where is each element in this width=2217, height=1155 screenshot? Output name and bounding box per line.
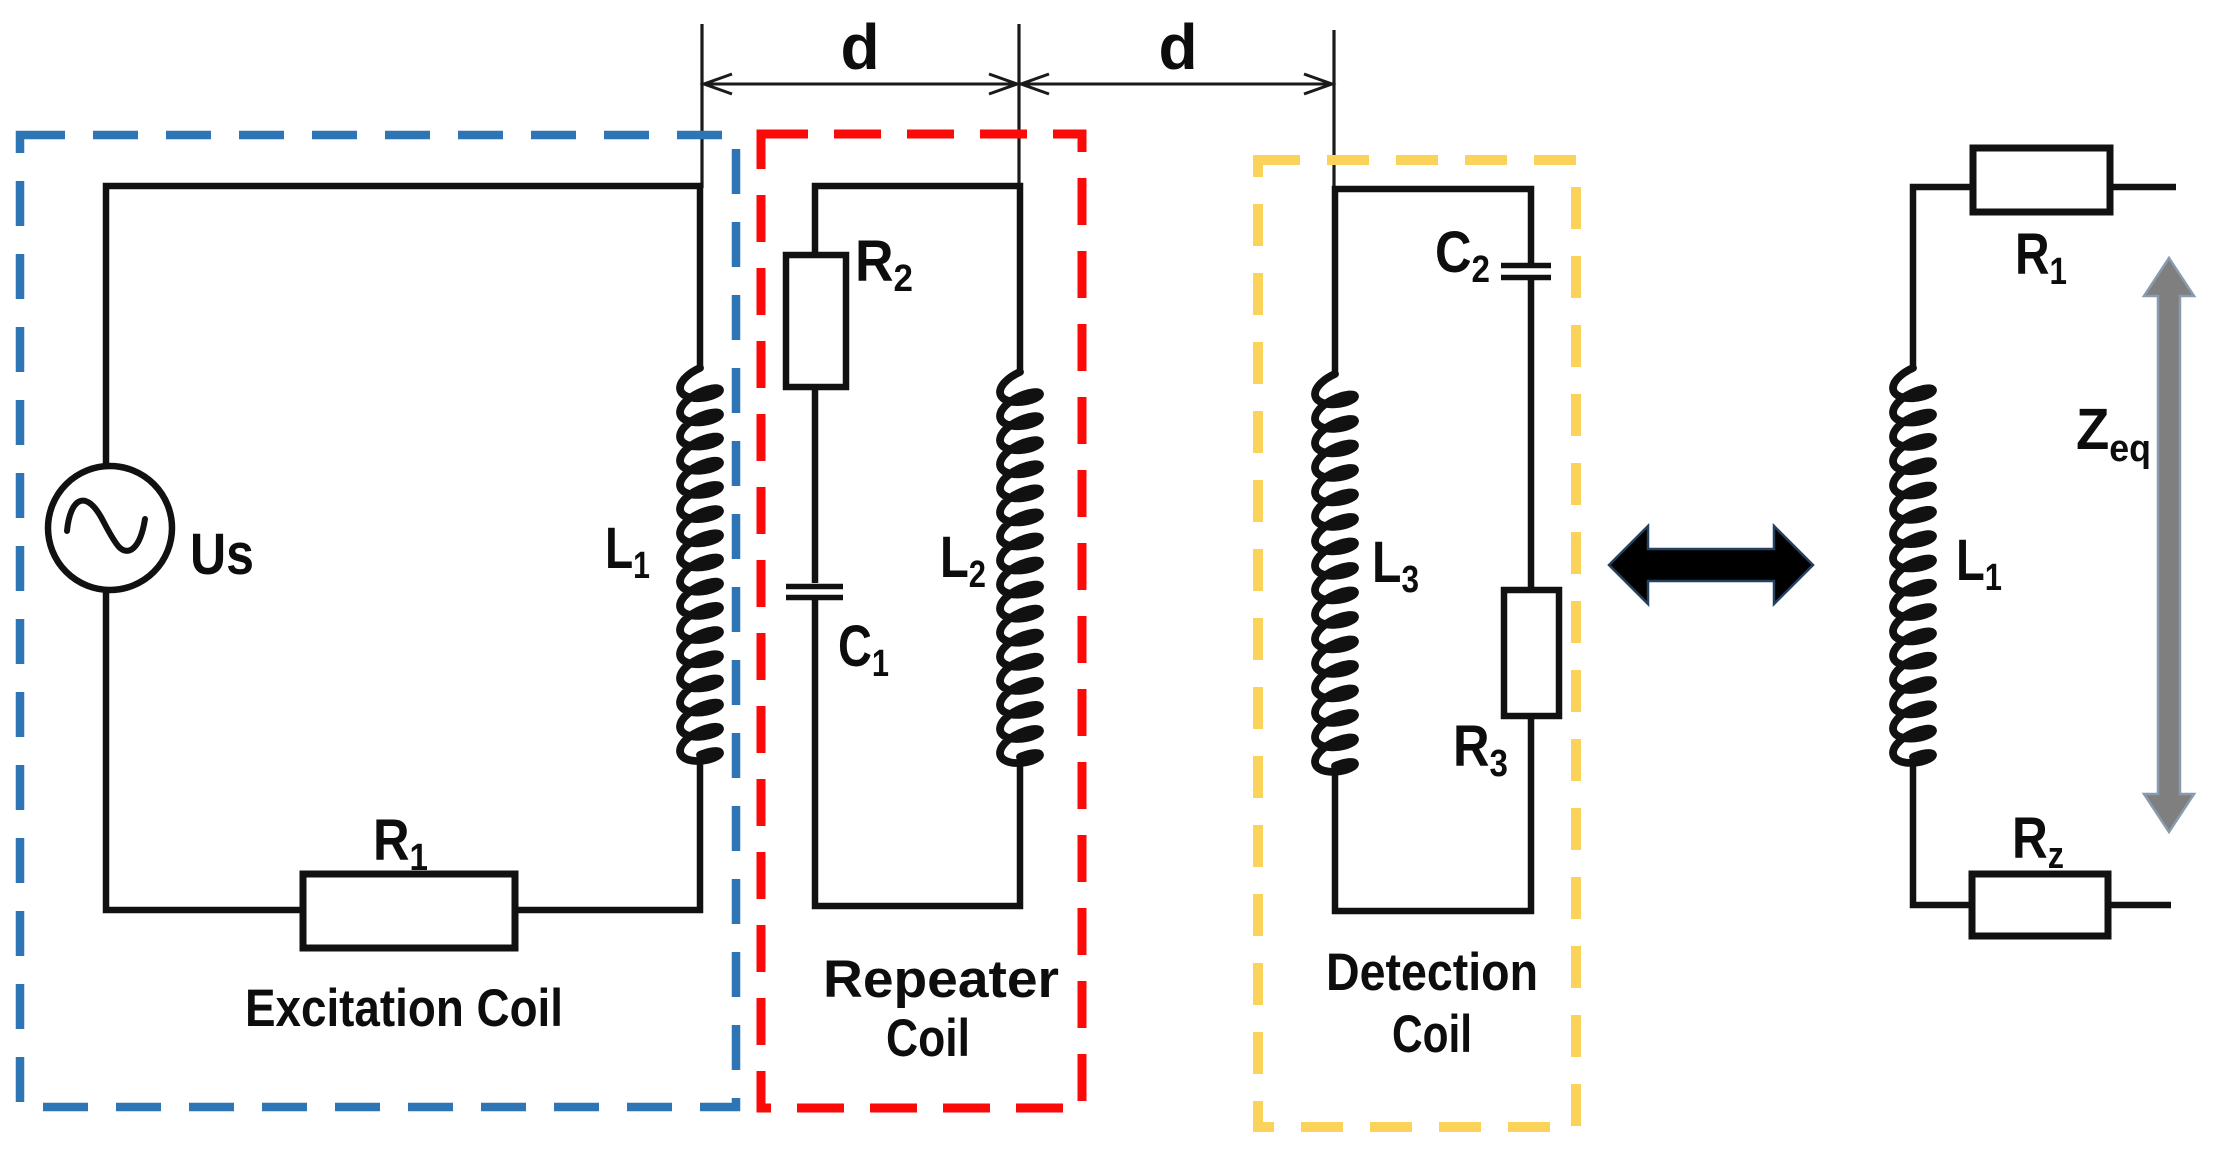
wire: excitation bottom right [515, 755, 700, 910]
capacitor C1 [786, 587, 843, 598]
svg-text:Us: Us [190, 522, 254, 587]
wire: excitation top loop [106, 186, 700, 466]
resistor R3 [1504, 590, 1559, 716]
capacitor C2 [1501, 266, 1551, 278]
wire: detection bottom loop [1335, 716, 1531, 911]
wire: repeater bottom loop [815, 600, 1020, 906]
AC voltage source Us [48, 466, 172, 590]
wire: excitation left lower [106, 588, 303, 910]
resistor R1 (excitation) [303, 874, 515, 948]
wire: equivalent top [1913, 187, 1973, 368]
svg-text:Coil: Coil [886, 1009, 970, 1068]
wire: detection top loop [1335, 189, 1531, 374]
dimension arrow line d (right span) [1019, 74, 1334, 94]
resistor Rz [1972, 874, 2108, 936]
equivalence double-headed arrow [1609, 526, 1813, 604]
inductor L1 (excitation coil) [680, 368, 720, 761]
wire: repeater top loop [815, 186, 1020, 372]
inductor L1 (equivalent) [1893, 368, 1933, 763]
wire: R2 to C1 [812, 387, 819, 583]
svg-text:Coil: Coil [1392, 1005, 1472, 1064]
dimension extension tick at x=1019 [1017, 24, 1020, 188]
wire: equivalent bottom right stub [2108, 902, 2171, 909]
wire: equivalent top right stub [2110, 184, 2176, 191]
wire: equivalent bottom [1913, 757, 1972, 905]
repeater coil dashed boundary box [761, 134, 1082, 1108]
inductor L3 (detection coil) [1315, 374, 1355, 772]
svg-text:Repeater: Repeater [823, 950, 1059, 1009]
dimension extension tick at x=1334 [1332, 30, 1335, 191]
dimension extension tick at x=702 [700, 24, 703, 188]
resistor R2 [786, 255, 846, 387]
svg-text:Excitation Coil: Excitation Coil [245, 979, 563, 1038]
wire: C2 to R3 [1528, 280, 1535, 590]
inductor L2 (repeater coil) [1000, 372, 1040, 763]
svg-text:Detection: Detection [1326, 943, 1538, 1002]
Zeq gray double arrow [2144, 258, 2194, 832]
resistor R1 (equivalent) [1973, 148, 2110, 212]
excitation coil dashed boundary box [20, 135, 736, 1107]
dimension arrow line d (left span) [702, 74, 1019, 94]
svg-text:d: d [1158, 11, 1197, 83]
svg-text:d: d [840, 11, 879, 83]
detection coil dashed boundary box [1258, 160, 1576, 1127]
